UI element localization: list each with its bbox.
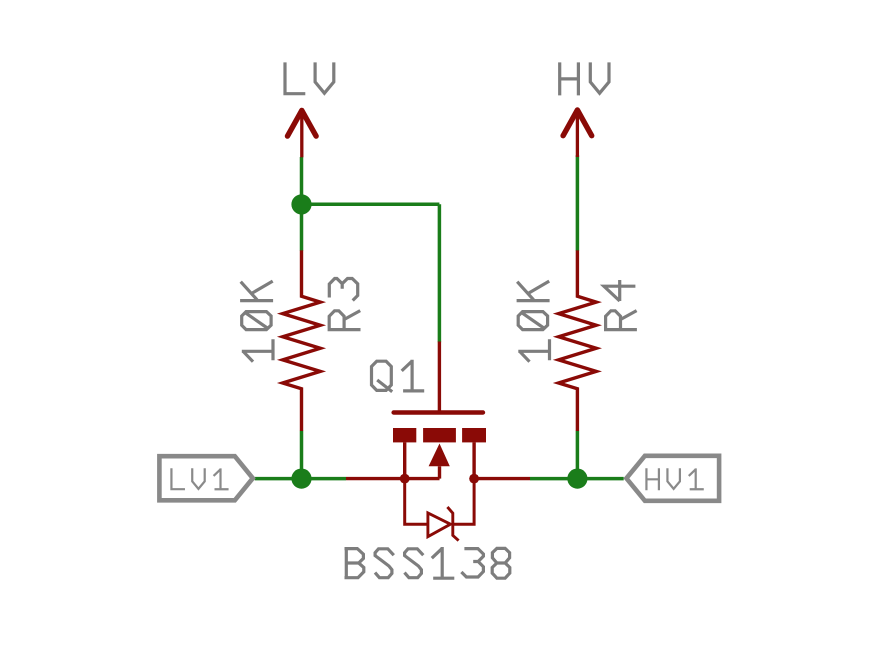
text R4 rotated (604, 280, 637, 330)
body diode loop left (405, 479, 428, 525)
junction node LV/R3 top (291, 194, 311, 214)
power symbol HV arrow (563, 110, 592, 157)
transistor Q1 channel bar source (393, 428, 416, 442)
text HV1 (646, 468, 703, 490)
junction dot source (400, 474, 410, 484)
wire: main horizontal net HV1 side (530, 477, 624, 481)
wire: R3 bottom to LV1 net (300, 431, 304, 479)
transistor Q1 body arrow (429, 444, 450, 467)
body diode loop right (453, 479, 474, 525)
text BSS138 (345, 547, 510, 578)
text HV (560, 62, 609, 95)
text LV1 (171, 468, 228, 489)
transistor Q1 source pin (403, 442, 406, 478)
power symbol LV arrow (288, 110, 317, 157)
text LV (285, 62, 334, 93)
body diode triangle (428, 513, 451, 537)
wire: HV power to R4 top (576, 155, 580, 251)
transistor Q1 gate pin (438, 342, 441, 412)
junction node HV1 (567, 469, 587, 489)
resistor R4 (559, 250, 597, 431)
body diode cathode (447, 507, 458, 541)
transistor Q1 channel bar body (423, 428, 456, 442)
transistor Q1 body pin (438, 466, 441, 478)
text 10K (R3) rotated (240, 281, 273, 362)
transistor Q1 source stub (346, 477, 440, 480)
wire: R3 top junction to gate (horizontal) (302, 202, 440, 206)
junction dot drain (469, 474, 479, 484)
resistor R3 (283, 250, 321, 431)
junction node LV1 (291, 469, 311, 489)
wire: main horizontal net LV1 side (255, 477, 346, 481)
text 10K (R4) rotated (517, 281, 550, 362)
text R3 rotated (329, 279, 360, 330)
wire: R4 bottom to HV1 net (576, 431, 580, 479)
transistor Q1 gate plate (394, 410, 483, 414)
transistor Q1 drain stub (474, 477, 530, 480)
transistor Q1 drain pin (472, 442, 475, 478)
label LV1 pentagon (159, 456, 252, 500)
text Q1 (372, 360, 425, 392)
wire: gate vertical (438, 204, 442, 342)
wire: LV power to R3 top (300, 157, 304, 251)
transistor Q1 channel bar drain (462, 428, 486, 442)
label HV1 pentagon (626, 456, 719, 501)
